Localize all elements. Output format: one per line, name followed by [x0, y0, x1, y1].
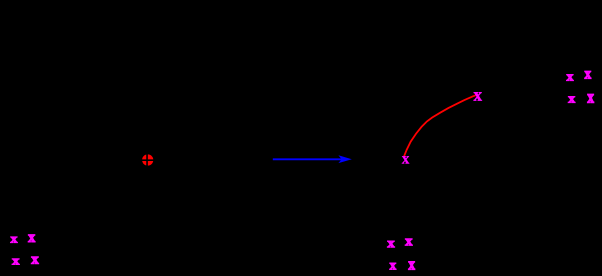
- plus sign highlighted by red circle: [141, 153, 154, 166]
- electron cross B3: [390, 263, 397, 269]
- electron cross A2: [28, 235, 35, 242]
- electron cross C2: [585, 71, 592, 78]
- electron cross B4: [408, 262, 415, 270]
- electron cross C4: [587, 94, 594, 102]
- electron cross A1: [11, 237, 18, 243]
- electron cross C3: [568, 96, 575, 102]
- electron cross D2 (transferred electron, end of curly arrow): [474, 92, 482, 100]
- electron cross B2: [405, 239, 412, 246]
- electron cross B1: [387, 241, 394, 247]
- electron cross A4: [31, 257, 38, 264]
- electron cross C1: [567, 74, 574, 80]
- curly arrow (red curve): [404, 95, 476, 156]
- electron cross A3: [12, 259, 19, 265]
- reaction arrow (blue): [273, 155, 352, 163]
- electron cross D1 (transferred electron, start of curly arrow): [402, 156, 409, 163]
